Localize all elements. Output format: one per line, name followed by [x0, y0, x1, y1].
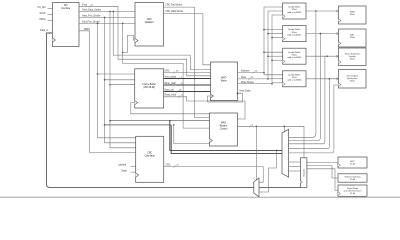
svg-text:Synthesizer: Synthesizer [347, 77, 358, 80]
junction wrap loop 3 [122, 52, 124, 54]
wire: End_Frm_Strobe from SPI to CRC Validator input 3 [79, 22, 135, 24]
wire: branch from line B down to MPO Reader clock [174, 125, 210, 144]
clock input triangle of CRC Calculator [136, 173, 139, 177]
svg-text:Reader: Reader [220, 125, 228, 128]
svg-text:Next_Data: Next_Data [240, 90, 252, 93]
wire: line A from New_Data vertical to MPO Reader input 2 [110, 120, 210, 122]
bus tick Data_out [176, 90, 178, 92]
junction [271, 59, 273, 61]
wire: Read_Addr from MPO Reader to frame buffer [164, 97, 245, 119]
wire: DB3 output to Seven Segment Display [306, 55, 339, 57]
junction at Frame Buffer branch [97, 73, 99, 75]
wire: readback vertical 4 from DB2 wire to mux M1 [289, 79, 330, 149]
clock input triangle Register [301, 181, 303, 184]
svg-text:ADC: ADC [350, 160, 355, 163]
wire: Write Strobe vertical riser into DB1 [272, 15, 283, 84]
wire: Data_out to MPO Writer [164, 91, 211, 93]
clock input triangle PWM [339, 19, 342, 22]
wire: readback vertical 3 from top line to mux M1 [289, 56, 325, 144]
svg-text:addr = 0x40258: addr = 0x40258 [287, 12, 302, 14]
block DB2 Double Buffer 2 [283, 26, 306, 42]
wire: Data branch to DB4 [268, 78, 283, 80]
wire: CRC Fail Strobe to MPO Reader input [164, 7, 210, 117]
svg-text:CS_Not: CS_Not [38, 6, 46, 9]
svg-text:SPI: SPI [64, 5, 68, 7]
wire: branch of End_Frm_Strobe down to Frame Buffer and MPO Reader [98, 23, 136, 137]
svg-text:Direct Digital: Direct Digital [347, 74, 359, 77]
wire: MPO Reader select output across to register top [238, 126, 305, 158]
junction on End_Frm branch [97, 23, 99, 25]
svg-text:Control: Control [220, 128, 228, 131]
junction [263, 51, 265, 53]
wire: CRC Valid Strobe to MPO Reader input [164, 14, 211, 65]
wire: line B dark branch down across to mux M1 [171, 125, 282, 154]
svg-text:Register: Register [303, 168, 306, 176]
wire: Next_Data loop back to MPO Writer clock region [208, 93, 243, 102]
svg-text:32-bit: 32-bit [292, 53, 297, 56]
wire: branch of New_Data_Strobe down to CRC Calculator input 2 [110, 11, 136, 147]
svg-text:Frame Buffer: Frame Buffer [143, 83, 157, 86]
bus tick Read_Addr [178, 95, 180, 97]
block U2 CRC Validator [135, 3, 164, 47]
wire: Address branch to DB4 [264, 74, 283, 76]
junction readback DB2 [320, 33, 322, 35]
svg-text:Latched: Latched [118, 164, 127, 167]
clock input triangle ADC [338, 164, 340, 167]
wire: Address bus from MPO Writer up to double buffers [238, 72, 265, 74]
wire: clock loop from Frame Buffer clock under block towards reader [131, 103, 210, 114]
wire: branch to Frame Buffer input 1 [98, 73, 135, 75]
wire: SCLK stub [48, 14, 53, 16]
svg-text:Seven Segments: Seven Segments [345, 52, 360, 55]
svg-text:MPO: MPO [221, 123, 226, 125]
page bottom border line [0, 196, 400, 198]
wire: Write Strobe branch to DB2 [272, 37, 283, 39]
junction [267, 55, 269, 57]
wire: CS_Not stub [48, 8, 53, 10]
svg-text:DAC: DAC [350, 33, 355, 36]
block I2 Selector Switches [338, 174, 367, 182]
clock input triangle SSD [339, 60, 342, 63]
wire: wrap loop 1 from New_Data under CRC Validator to MPO Writer [113, 11, 210, 69]
wire: branch to Frame Buffer input 3 [110, 84, 135, 86]
block P3 Seven Segment Display [339, 48, 367, 66]
block U4 MPO Writer [211, 62, 238, 101]
wire: Write Strobe branch to DB3 [272, 59, 283, 61]
svg-text:Data_out: Data_out [165, 88, 175, 91]
wire: Address branch to DB3 [264, 51, 283, 53]
bus tick CRC calc [174, 165, 176, 167]
junction at Frame Buffer input 3 branch [109, 84, 111, 86]
wire: Data bus from MPO Writer [238, 78, 269, 80]
clock input triangle DAC [339, 42, 342, 45]
wire: Write_Addr to MPO Writer [164, 84, 211, 86]
bus tick on select wire [249, 125, 251, 127]
wire: DB1 output to PWM [306, 10, 339, 12]
junction [271, 37, 273, 39]
svg-text:Write_Addr: Write_Addr [165, 82, 177, 85]
svg-text:Data: Data [241, 76, 247, 79]
input arrowhead DAC [336, 33, 338, 35]
svg-text:CRC Fail Strobe: CRC Fail Strobe [165, 3, 182, 6]
svg-text:32-bit: 32-bit [350, 13, 355, 16]
bus width tick on Freq wire [89, 5, 91, 7]
wire: branch of New_Frm_Strobe down to Frame Buffer input 2 and line B [105, 17, 136, 142]
wire: Latched stub [131, 165, 136, 167]
svg-text:State: State [122, 169, 128, 172]
svg-text:32-bit: 32-bit [292, 31, 297, 34]
svg-text:CRC: CRC [147, 152, 152, 154]
junction readback DB1 [315, 10, 317, 12]
block U5 MPO Reader Control [210, 113, 238, 146]
wire: mux M1 lower input from register left 1 [289, 161, 301, 163]
clock input triangle DB1 [283, 15, 286, 18]
wire: Address vertical riser into DB1 [264, 7, 283, 75]
block P1 PWM [339, 6, 367, 24]
bus tick Data [249, 78, 251, 80]
input arrowhead DDS [336, 78, 338, 80]
wire: mux output branch down to mux M2 input [259, 150, 277, 192]
wire: clock loop from End_Frm into CRC Validator clock [123, 23, 135, 52]
svg-text:32-bit: 32-bit [350, 36, 355, 39]
svg-text:Calculator: Calculator [145, 154, 156, 157]
junction [267, 33, 269, 35]
wire: frame buffer CRC to MPO Writer [164, 72, 211, 74]
wire: branch to Frame Buffer input 2 [105, 79, 135, 81]
block U1 SPI Interface [53, 3, 80, 47]
svg-text:32-bit: 32-bit [350, 192, 355, 195]
junction Data at writer wire [267, 78, 269, 80]
clock input triangle Status Flags [338, 192, 340, 195]
wire: ADC to register [307, 162, 338, 164]
junction Address at writer wire [263, 72, 265, 74]
svg-text:and CRC Fail Count: and CRC Fail Count [344, 189, 362, 192]
junction readback DB3 [326, 55, 328, 57]
junction line B tap [104, 124, 106, 126]
wire: New_Data_Strobe from SPI to CRC Validator input 1 [79, 10, 135, 12]
wire: Status Flags to register [307, 169, 338, 191]
clock input triangle DB3 [283, 60, 286, 63]
wire: mux M1 lower input from register left 3 [289, 170, 301, 172]
junction on clock loop [122, 23, 124, 25]
junction select branch [255, 126, 257, 128]
clock input triangle of SPI Interface [53, 38, 56, 42]
wire: New_Frm_Strobe from SPI to CRC Validator input 2 [79, 16, 135, 18]
wire: Write Strobe branch to DB4 [272, 82, 283, 84]
junction of New_Frm branch [104, 17, 106, 19]
svg-text:32-bit: 32-bit [292, 8, 297, 11]
junction reader clock branch [173, 124, 175, 126]
block U6 CRC Calculator [136, 136, 164, 182]
block U3 Frame Buffer [135, 69, 164, 108]
bus tick Num_bytes [178, 77, 180, 79]
clock input triangle DB2 [283, 37, 286, 40]
bus tick Address [253, 71, 255, 73]
svg-text:CRC: CRC [165, 70, 170, 72]
wire: Num_bytes to MPO Writer [164, 78, 211, 80]
svg-text:addr = 0x40260: addr = 0x40260 [287, 57, 302, 59]
wire: MISO stub and long left vertical to CRC Calculator input [79, 31, 136, 153]
wire: DB4 output to DDS [306, 78, 339, 80]
svg-text:Selector Switches: Selector Switches [345, 175, 361, 178]
svg-text:Read_Addr: Read_Addr [165, 94, 177, 97]
wire: Address branch to DB2 [264, 29, 283, 31]
wire: branch of line A down across to mux M1 [170, 121, 283, 151]
svg-text:(256 48-bit): (256 48-bit) [143, 86, 155, 89]
wire: select drop into mux M1 top [283, 126, 285, 131]
wire: DB2 output to DAC [306, 33, 339, 35]
block P2 DAC [339, 29, 367, 47]
svg-text:32-bit: 32-bit [350, 80, 355, 83]
block P4 Direct Digital Synthesizer [339, 70, 367, 89]
input arrowhead PWM [336, 10, 338, 12]
junction Write Strobe at writer wire [271, 83, 273, 85]
wire: Data vertical riser into DB1 [268, 11, 283, 79]
clock input triangle of MPO Writer [211, 94, 214, 98]
bus tick Data_In [49, 32, 51, 34]
wire: readback vertical 2 from DB4 wire to mux M1 [289, 34, 321, 141]
wire: readback vertical 5 from DB3 wire to mux M1 [289, 85, 339, 153]
svg-text:32-bit: 32-bit [292, 76, 297, 79]
wire: State stub [131, 171, 136, 173]
svg-text:Num_bytes: Num_bytes [165, 75, 177, 78]
wire: bottom readback bus from mux M2 to SPI Data_In [47, 33, 254, 187]
mux M2 readback selector [254, 178, 259, 197]
svg-text:32-bit: 32-bit [350, 58, 355, 61]
pin pad Next_Data [237, 93, 239, 95]
svg-text:Data_In: Data_In [40, 29, 49, 32]
junction select at mux M1 [284, 126, 286, 128]
svg-text:CRC: CRC [165, 164, 170, 166]
svg-text:CRC Valid Strobe: CRC Valid Strobe [165, 10, 184, 13]
svg-text:addr = 0x40264: addr = 0x40264 [287, 80, 302, 82]
block DB3 Double Buffer 3 [283, 48, 306, 64]
svg-text:32-bit: 32-bit [350, 178, 355, 181]
block DB1 Double Buffer 1 [283, 3, 306, 19]
wire: wrap loop 3 from End_Frm clock vertical to MPO Reader input 3 [123, 53, 210, 129]
bus tick CRC [173, 71, 175, 73]
clock input triangle of MPO Reader Control [210, 139, 213, 143]
block I3 Status Flags and CRC Fail Count [338, 185, 367, 196]
wire: select branch down to mux M2 [255, 126, 257, 180]
wire: Freq from SPI to loop under CRC Validator into MPO Writer [79, 6, 211, 76]
junction mux output line [276, 150, 278, 152]
clock input triangle of Frame Buffer [135, 101, 138, 105]
mux M1 readback multiplexer [282, 129, 289, 177]
svg-text:Writer: Writer [221, 80, 227, 83]
junction line A tap [109, 120, 111, 122]
junction wrap loop 1 [112, 11, 114, 13]
svg-text:CRC: CRC [147, 19, 152, 21]
wire: readback vertical 1 from DB1 wire to mux M1 [289, 11, 316, 137]
bus tick Write_Addr [178, 84, 180, 86]
clock input triangle DDS [339, 83, 342, 86]
wire: MOSI stub [48, 20, 53, 22]
input arrowhead Seven Segment Display [336, 55, 338, 57]
wire: Write Strobe bus from MPO Writer [238, 83, 273, 85]
clock input triangle DB4 [283, 82, 286, 85]
wire: Data branch to DB2 [268, 33, 283, 35]
svg-text:Validator: Validator [145, 21, 154, 24]
svg-text:Address: Address [241, 70, 250, 73]
wire: CRC Calculator output to mux M2 [164, 167, 264, 183]
svg-text:MOSI: MOSI [40, 19, 46, 21]
block DB4 Double Buffer 4 [283, 71, 306, 87]
wire: line B from New_Frm vertical to branch point [105, 124, 172, 126]
junction readback DB4 [329, 78, 331, 80]
junction [263, 29, 265, 31]
junction CRC Fail vertical with Num_bytes bus [194, 78, 196, 80]
block I1 ADC [338, 157, 367, 168]
junction at Frame Buffer input branch [104, 79, 106, 81]
wire: Selector Switches to register [307, 166, 338, 179]
wire: bus segment register to mux M2 [259, 186, 301, 188]
svg-text:Freq: Freq [82, 3, 87, 6]
junction line A to mux branch [169, 120, 171, 122]
svg-text:MPO: MPO [221, 78, 226, 80]
wire: mux M1 lower input from register left 2 [289, 166, 301, 168]
wire: Data branch to DB3 [268, 55, 283, 57]
clock input triangle of CRC Validator [135, 39, 138, 43]
block U7 Register [301, 158, 307, 188]
junction on New_Data branch [109, 11, 111, 13]
svg-text:Interface: Interface [61, 7, 71, 10]
svg-text:addr = 0x4025C: addr = 0x4025C [287, 34, 302, 36]
svg-text:32-bit: 32-bit [350, 162, 355, 165]
svg-text:Status Flags: Status Flags [347, 187, 358, 190]
svg-text:SCLK: SCLK [40, 13, 46, 15]
